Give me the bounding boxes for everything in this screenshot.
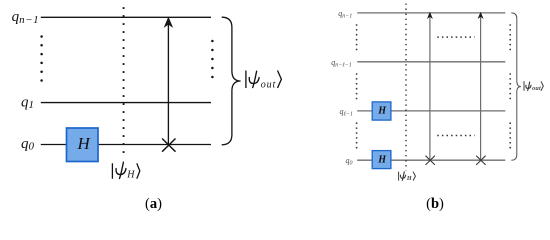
horizontal dotted ellipsis between arrows, top (b)	[437, 36, 474, 38]
gate H (a)	[67, 128, 99, 162]
vertical ellipsis right column, gap 2 (b)	[509, 73, 511, 99]
svg-text:out: out	[532, 86, 541, 92]
swap cross right on q_0 (b)	[476, 156, 485, 165]
svg-text:(b): (b)	[426, 196, 444, 212]
vertical ellipsis right column, gap 3 (b)	[509, 122, 511, 148]
right control-line arrow from q_0 to q_{n-1} (b)	[478, 12, 484, 161]
vertical ellipsis left, gap 1 (b)	[356, 24, 358, 50]
dotted barrier line (b)	[405, 4, 407, 171]
svg-text:qn−1: qn−1	[12, 9, 40, 26]
wire q_0 (b)	[357, 159, 505, 161]
wire q_0 (a)	[41, 144, 211, 146]
output brace (a)	[222, 17, 241, 145]
svg-text:H: H	[406, 176, 412, 182]
vertical ellipsis left, gap 2 (b)	[356, 73, 358, 99]
swap cross on q_0 (a)	[162, 139, 175, 152]
svg-text:(a): (a)	[145, 196, 162, 212]
vertical ellipsis between q_{n-1} and q_1, left (a)	[40, 35, 43, 82]
label q_{l-1} (b)	[339, 107, 353, 118]
label |psi_out> (b)	[524, 81, 543, 92]
wire q_{n-1} (a)	[41, 16, 211, 18]
label |psi_H> (b)	[399, 172, 416, 182]
svg-text:qn−1: qn−1	[338, 9, 352, 19]
label q_1 (a)	[21, 94, 34, 111]
gate H on q_0 (b)	[372, 151, 391, 169]
gate H on q_{l-1} (b)	[372, 102, 391, 120]
label |psi_H> (a)	[112, 162, 139, 180]
wire q_{l-1} (b)	[357, 110, 505, 112]
svg-text:q0: q0	[21, 136, 35, 153]
svg-text:qℓ−1: qℓ−1	[339, 107, 353, 118]
svg-text:q0: q0	[346, 156, 353, 167]
svg-text:out: out	[261, 80, 276, 91]
vertical ellipsis right column (a)	[211, 40, 214, 79]
svg-text:H: H	[76, 134, 91, 153]
swap cross left on q_0 (b)	[426, 156, 435, 165]
label q_{n-l-1} (b)	[331, 58, 352, 69]
label q_0 (b)	[346, 156, 353, 167]
label |psi_out> (a)	[246, 71, 282, 91]
horizontal dotted ellipsis between arrows, bottom (b)	[437, 135, 474, 137]
caption (b)	[426, 196, 444, 212]
label q_{n-1} (a)	[12, 9, 40, 26]
label q_{n-1} (b)	[338, 9, 352, 19]
wire q_1 (a)	[41, 102, 211, 104]
svg-text:qn−ℓ−1: qn−ℓ−1	[331, 58, 352, 69]
vertical ellipsis right column, gap 1 (b)	[509, 24, 511, 50]
svg-text:H: H	[377, 106, 387, 117]
svg-text:H: H	[377, 154, 387, 165]
label q_0 (a)	[21, 136, 35, 153]
wire q_{n-1} (b)	[357, 12, 505, 14]
vertical ellipsis left, gap 3 (b)	[356, 122, 358, 148]
svg-text:q1: q1	[21, 94, 34, 111]
svg-text:H: H	[126, 170, 135, 181]
caption (a)	[145, 196, 162, 212]
wire q_{n-l-1} (b)	[357, 61, 505, 63]
control-line arrow from q_0 to q_{n-1} (a)	[164, 17, 173, 145]
dotted barrier line |psi_H> (a)	[123, 7, 125, 159]
left control-line arrow from q_0 to q_{n-1} (b)	[427, 12, 433, 161]
output brace (b)	[511, 13, 521, 160]
